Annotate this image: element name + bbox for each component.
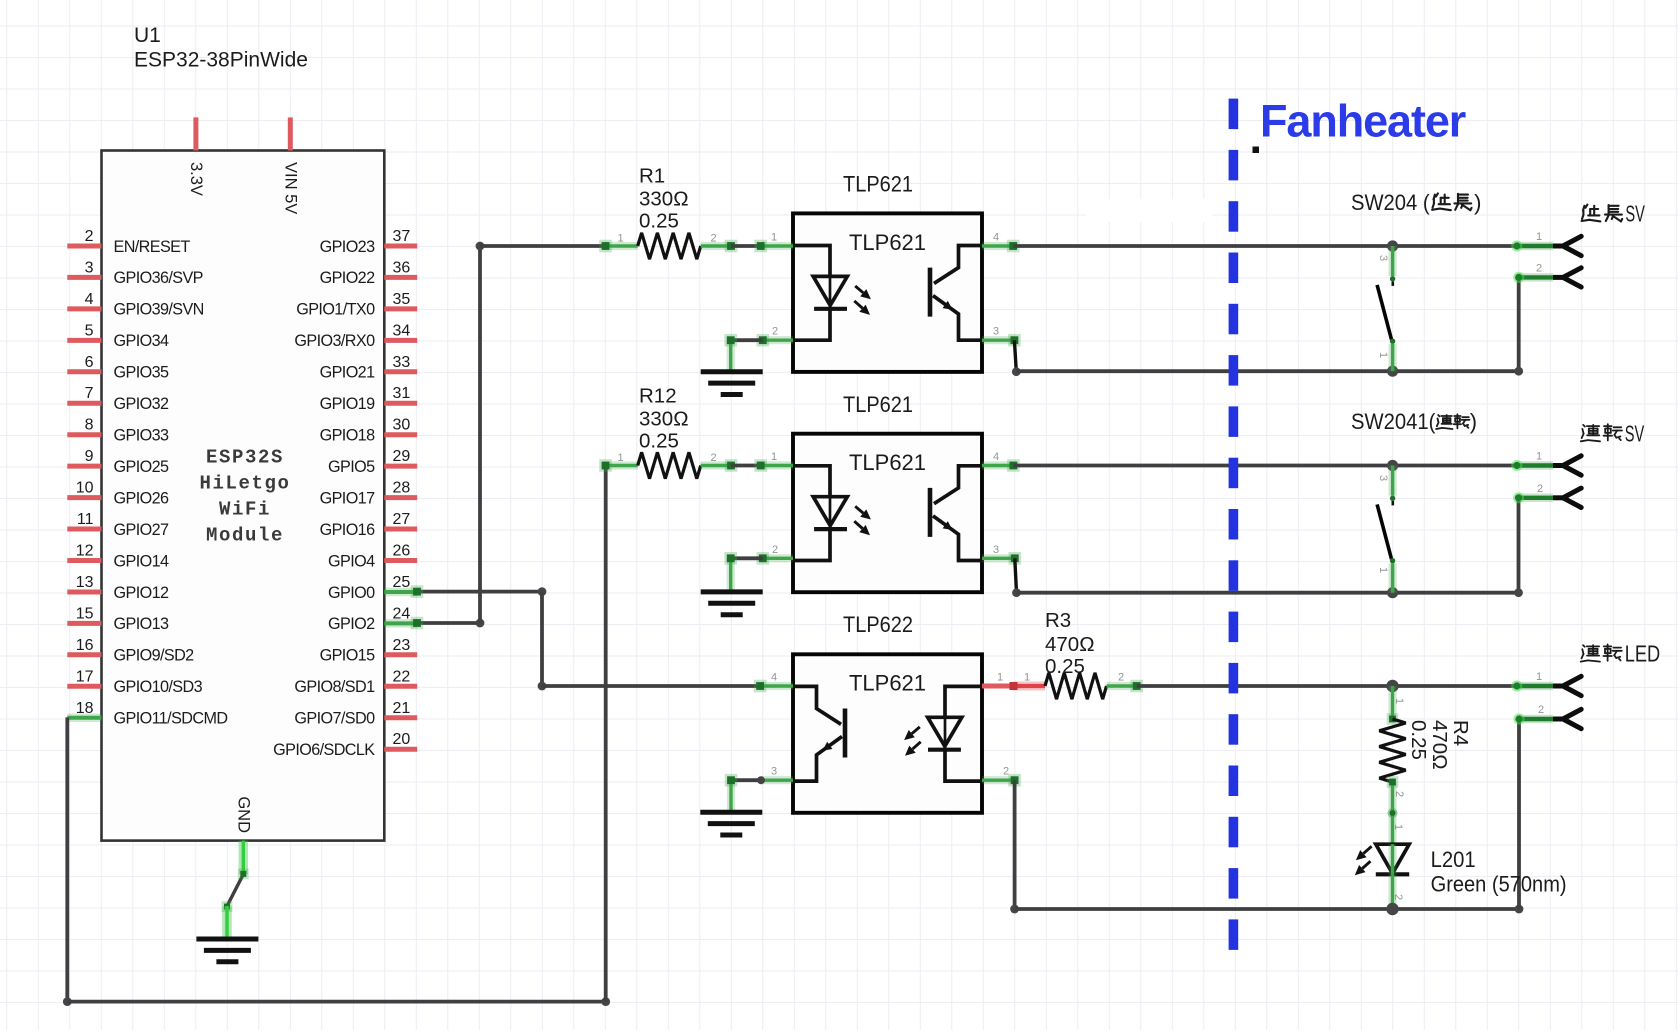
U1 right pin 26 GPIO4 <box>384 558 417 563</box>
IC U1 ESP32-38PinWide body <box>102 151 385 841</box>
svg-text:3: 3 <box>771 766 777 778</box>
U3 pin 4 <box>982 461 1013 469</box>
ground wire U4 pin3 <box>727 780 735 812</box>
svg-text:15: 15 <box>76 605 94 622</box>
svg-text:3: 3 <box>85 259 94 276</box>
svg-text:TLP621: TLP621 <box>849 450 926 475</box>
U1 right pin 28 GPIO17 <box>384 495 417 500</box>
U4 LED and transistor mirrored <box>793 686 982 781</box>
connector J2 pin 2 <box>1519 494 1554 503</box>
svg-text:3: 3 <box>993 326 999 338</box>
U1 left pin 4 GPIO39/SVN <box>67 306 101 311</box>
connector J3 pin 1 <box>1517 682 1553 691</box>
net rail LED bottom <box>1010 905 1019 914</box>
switch SW2041 <box>1387 460 1398 471</box>
svg-text:8: 8 <box>85 417 94 434</box>
svg-text:GPIO8/SD1: GPIO8/SD1 <box>294 678 375 696</box>
svg-text:34: 34 <box>393 322 411 339</box>
net label UNTEN SV <box>1581 425 1600 441</box>
svg-text:): ) <box>1470 409 1477 434</box>
svg-text:470Ω: 470Ω <box>1428 720 1451 770</box>
svg-text:29: 29 <box>393 448 411 465</box>
svg-text:3: 3 <box>1377 475 1389 481</box>
wire GPIO0 pin25 to opto U3 pin4 <box>417 590 542 594</box>
svg-text:U1: U1 <box>134 24 161 47</box>
svg-text:GPIO23: GPIO23 <box>320 238 375 256</box>
svg-text:GPIO39/SVN: GPIO39/SVN <box>114 301 204 319</box>
svg-text:2: 2 <box>1393 791 1405 797</box>
U1 left pin 18 GPIO11/SDCMD <box>67 714 101 723</box>
U1 right pin 33 GPIO21 <box>384 369 417 374</box>
resistor R12 330ohm <box>606 461 638 469</box>
svg-text:17: 17 <box>76 668 94 685</box>
U1 right pin 35 GPIO1/TX0 <box>384 306 417 311</box>
resistor R4 470ohm <box>1388 686 1396 719</box>
U2 pin 3 <box>982 336 1014 344</box>
svg-text:470Ω: 470Ω <box>1045 633 1095 656</box>
svg-text:12: 12 <box>76 543 94 560</box>
U1 right pin 29 GPIO5 <box>384 464 417 469</box>
net label UNTEN LED <box>1581 645 1600 661</box>
svg-text:EN/RESET: EN/RESET <box>114 238 191 256</box>
pin VIN 5V <box>288 117 293 150</box>
opto-isolator U2 TLP621 body <box>793 213 982 372</box>
svg-text:GPIO13: GPIO13 <box>114 615 169 633</box>
U2 LED and transistor <box>793 246 830 277</box>
connector J3 pin 2 <box>1519 715 1553 724</box>
connector J2 pin 1 <box>1517 461 1553 470</box>
opto-isolator U4 TLP622 body <box>793 654 982 813</box>
svg-text:2: 2 <box>1537 483 1543 495</box>
U1 right pin 22 GPIO8/SD1 <box>384 684 417 689</box>
svg-text:6: 6 <box>85 354 94 371</box>
U1 left pin 7 GPIO32 <box>67 401 101 406</box>
svg-text:1: 1 <box>1393 698 1405 704</box>
LED bottom junction <box>1386 903 1398 915</box>
U1 left pin 9 GPIO25 <box>67 464 101 469</box>
svg-text:GPIO15: GPIO15 <box>320 647 375 665</box>
ground symbol under U4 <box>700 810 762 815</box>
U1 right pin 24 GPIO2 <box>384 619 417 628</box>
svg-text:23: 23 <box>393 637 411 654</box>
svg-text:2: 2 <box>710 232 716 244</box>
svg-text:WiFi: WiFi <box>219 499 271 521</box>
U1 right pin 31 GPIO19 <box>384 401 417 406</box>
svg-text:GPIO4: GPIO4 <box>328 552 375 570</box>
U1 left pin 16 GPIO9/SD2 <box>67 652 101 657</box>
conn J3 pin2 drop wire <box>1517 719 1521 909</box>
svg-text:18: 18 <box>76 700 94 717</box>
svg-text:36: 36 <box>393 259 411 276</box>
svg-text:TLP621: TLP621 <box>843 172 913 197</box>
svg-text:GPIO35: GPIO35 <box>114 364 169 382</box>
svg-text:22: 22 <box>393 668 411 685</box>
U3 pin 2 <box>763 554 793 562</box>
U1 left pin 13 GPIO12 <box>67 590 101 595</box>
svg-text:1: 1 <box>1536 451 1542 463</box>
U2 pin 1 <box>761 242 793 250</box>
svg-text:GPIO6/SDCLK: GPIO6/SDCLK <box>273 741 375 759</box>
wire up to R12 <box>604 466 608 1002</box>
net label ENCHO SV <box>1582 205 1601 222</box>
svg-text:TLP621: TLP621 <box>849 230 926 255</box>
conn J2 pin2 drop wire <box>1517 498 1521 593</box>
LED L201 <box>1376 844 1409 873</box>
U3 LED and transistor <box>793 466 830 497</box>
svg-text:35: 35 <box>393 291 411 308</box>
svg-text:GPIO1/TX0: GPIO1/TX0 <box>296 301 375 319</box>
svg-text:GPIO3/RX0: GPIO3/RX0 <box>294 332 375 350</box>
net rail SW2041 top <box>1013 464 1516 468</box>
svg-text:GPIO21: GPIO21 <box>320 364 375 382</box>
ground symbol under U2 <box>701 369 763 374</box>
svg-text:4: 4 <box>993 232 999 244</box>
wire GPIO11/SDCMD pin18 down <box>65 717 69 1001</box>
opto-isolator U3 TLP621 body <box>793 434 982 593</box>
U1 left pin 5 GPIO34 <box>67 338 101 343</box>
svg-text:): ) <box>1474 190 1481 215</box>
net rail SW204 top <box>1013 244 1517 248</box>
svg-text:33: 33 <box>393 354 411 371</box>
svg-text:0.25: 0.25 <box>1045 655 1085 678</box>
svg-text:GPIO10/SD3: GPIO10/SD3 <box>114 678 203 696</box>
svg-text:Green (570nm): Green (570nm) <box>1431 872 1567 897</box>
svg-text:1: 1 <box>1392 824 1404 830</box>
U3 pin 3 <box>982 554 1015 562</box>
U1 left pin 15 GPIO13 <box>67 621 101 626</box>
svg-text:GND: GND <box>234 796 252 833</box>
pin 3.3V <box>193 117 198 150</box>
connector J1 pin 1 <box>1517 242 1553 251</box>
svg-text:LED: LED <box>1625 641 1661 667</box>
svg-text:SV: SV <box>1625 420 1645 446</box>
net rail SW2041 bottom <box>1015 558 1017 592</box>
svg-text:GPIO0: GPIO0 <box>328 584 375 602</box>
svg-text:330Ω: 330Ω <box>639 407 689 430</box>
svg-text:GPIO36/SVP: GPIO36/SVP <box>114 269 203 287</box>
svg-text:GPIO32: GPIO32 <box>114 395 169 413</box>
svg-text:11: 11 <box>77 511 94 528</box>
svg-text:3.3V: 3.3V <box>187 162 205 196</box>
ground wire U3 pin2 <box>731 556 763 560</box>
svg-text:25: 25 <box>393 574 411 591</box>
svg-text:GPIO25: GPIO25 <box>114 458 169 476</box>
svg-text:TLP622: TLP622 <box>843 612 913 637</box>
switch SW204 <box>1387 240 1398 251</box>
svg-text:SW204 (: SW204 ( <box>1351 190 1430 215</box>
svg-text:330Ω: 330Ω <box>639 188 689 211</box>
U4 pin 3 <box>731 778 761 782</box>
svg-text:Module: Module <box>206 525 284 547</box>
svg-text:GPIO22: GPIO22 <box>320 269 375 287</box>
svg-text:1: 1 <box>1536 231 1542 243</box>
U1 right pin 30 GPIO18 <box>384 432 417 437</box>
U1 right pin 37 GPIO23 <box>384 244 417 249</box>
svg-text:31: 31 <box>393 385 411 402</box>
U4 pin 2 <box>982 776 1015 784</box>
U4 pin 4 <box>760 682 793 690</box>
U1 left pin 12 GPIO14 <box>67 558 101 563</box>
U2 pin 4 <box>982 242 1013 250</box>
svg-text:SV: SV <box>1625 200 1645 226</box>
ground symbol under U3 <box>701 589 763 594</box>
svg-text:20: 20 <box>393 731 411 748</box>
svg-text:GPIO16: GPIO16 <box>320 521 375 539</box>
svg-text:1: 1 <box>617 452 623 464</box>
U1 right pin 36 GPIO22 <box>384 275 417 280</box>
U1 left pin 10 GPIO26 <box>67 495 101 500</box>
svg-text:GPIO9/SD2: GPIO9/SD2 <box>114 647 195 665</box>
svg-text:GPIO5: GPIO5 <box>328 458 375 476</box>
resistor R1 330ohm <box>606 242 638 250</box>
svg-text:2: 2 <box>85 228 94 245</box>
white patch <box>1086 199 1212 222</box>
svg-text:1: 1 <box>1536 671 1542 683</box>
svg-text:GPIO26: GPIO26 <box>114 489 169 507</box>
svg-text:0.25: 0.25 <box>1407 720 1430 760</box>
U1 left pin 17 GPIO10/SD3 <box>67 684 101 689</box>
wire jog GND <box>227 874 243 906</box>
U3 pin 1 <box>761 461 793 469</box>
svg-text:GPIO17: GPIO17 <box>320 489 375 507</box>
U1 left pin 3 GPIO36/SVP <box>67 275 101 280</box>
svg-text:3: 3 <box>993 544 999 556</box>
svg-text:9: 9 <box>85 448 94 465</box>
svg-text:1: 1 <box>617 232 623 244</box>
svg-text:13: 13 <box>76 574 94 591</box>
svg-text:0.25: 0.25 <box>639 210 679 233</box>
U1 left pin 11 GPIO27 <box>67 527 101 532</box>
svg-text:R4: R4 <box>1449 720 1472 746</box>
connector J1 pin 2 <box>1519 273 1553 282</box>
svg-text:28: 28 <box>393 480 411 497</box>
svg-text:GPIO7/SD0: GPIO7/SD0 <box>294 710 375 728</box>
svg-text:30: 30 <box>393 417 411 434</box>
net rail SW204 bottom <box>1014 340 1016 372</box>
svg-text:4: 4 <box>85 291 94 308</box>
svg-text:1: 1 <box>771 451 777 463</box>
svg-text:1: 1 <box>1024 672 1030 684</box>
svg-text:GPIO2: GPIO2 <box>328 615 375 633</box>
svg-text:GPIO11/SDCMD: GPIO11/SDCMD <box>114 710 228 728</box>
svg-text:4: 4 <box>771 672 777 684</box>
svg-text:HiLetgo: HiLetgo <box>199 473 290 495</box>
svg-text:SW2041(: SW2041( <box>1351 409 1436 434</box>
bottom wire <box>63 997 72 1006</box>
svg-text:3: 3 <box>1377 255 1389 261</box>
svg-text:2: 2 <box>1536 263 1542 275</box>
svg-text:L201: L201 <box>1431 847 1476 872</box>
svg-text:TLP621: TLP621 <box>849 671 926 696</box>
svg-text:5: 5 <box>85 322 94 339</box>
svg-text:TLP621: TLP621 <box>843 392 913 417</box>
svg-text:21: 21 <box>393 700 411 717</box>
ground symbol under U1 <box>196 937 258 942</box>
wire GPIO2 pin24 up to R1 <box>417 621 480 625</box>
svg-text:2: 2 <box>772 544 778 556</box>
wire U4 pin2 down <box>1013 780 1017 909</box>
svg-text:R12: R12 <box>639 384 677 407</box>
svg-text:ESP32-38PinWide: ESP32-38PinWide <box>134 49 308 72</box>
R4 junction <box>1386 680 1398 692</box>
svg-text:0.25: 0.25 <box>639 429 679 452</box>
small black mark <box>1253 147 1260 154</box>
svg-text:10: 10 <box>76 480 94 497</box>
svg-text:2: 2 <box>1538 704 1544 716</box>
svg-text:24: 24 <box>393 605 411 622</box>
ground wire U2 pin2 <box>731 338 763 342</box>
svg-text:1: 1 <box>1377 567 1389 573</box>
svg-text:1: 1 <box>771 232 777 244</box>
conn J1 pin2 drop wire <box>1517 277 1521 371</box>
U1 left pin 6 GPIO35 <box>67 369 101 374</box>
svg-text:GPIO14: GPIO14 <box>114 552 169 570</box>
svg-text:27: 27 <box>393 511 411 528</box>
svg-text:R1: R1 <box>639 165 665 188</box>
svg-text:1: 1 <box>997 672 1003 684</box>
svg-text:26: 26 <box>393 543 411 560</box>
svg-text:2: 2 <box>1392 894 1404 900</box>
svg-text:GPIO18: GPIO18 <box>320 427 375 445</box>
svg-text:Fanheater: Fanheater <box>1260 95 1466 146</box>
svg-text:GPIO27: GPIO27 <box>114 521 169 539</box>
svg-text:4: 4 <box>993 451 999 463</box>
U1 right pin 21 GPIO7/SD0 <box>384 715 417 720</box>
U2 pin 2 <box>763 336 793 344</box>
svg-text:2: 2 <box>1118 672 1124 684</box>
svg-text:GPIO12: GPIO12 <box>114 584 169 602</box>
resistor R3 470ohm <box>1045 673 1107 699</box>
svg-text:7: 7 <box>85 385 94 402</box>
svg-text:GPIO33: GPIO33 <box>114 427 169 445</box>
svg-text:GPIO34: GPIO34 <box>114 332 169 350</box>
net rail LED top <box>1137 684 1517 688</box>
U1 left pin 2 EN/RESET <box>67 244 101 249</box>
svg-text:16: 16 <box>76 637 94 654</box>
U1 left pin 8 GPIO33 <box>67 432 101 437</box>
U4 pin 1 red wire <box>1014 682 1046 691</box>
U1 right pin 34 GPIO3/RX0 <box>384 338 417 343</box>
U1 right pin 23 GPIO15 <box>384 652 417 657</box>
svg-text:1: 1 <box>1377 352 1389 358</box>
svg-text:R3: R3 <box>1045 609 1071 632</box>
U1 right pin 20 GPIO6/SDCLK <box>384 747 417 752</box>
svg-text:GPIO19: GPIO19 <box>320 395 375 413</box>
U1 right pin 27 GPIO16 <box>384 527 417 532</box>
U1 right pin 25 GPIO0 <box>384 588 417 597</box>
svg-text:2: 2 <box>772 326 778 338</box>
svg-text:ESP32S: ESP32S <box>206 447 284 469</box>
svg-text:37: 37 <box>393 228 411 245</box>
Fanheater boundary dashed line <box>1229 99 1239 950</box>
svg-text:2: 2 <box>1003 766 1009 778</box>
svg-text:VIN 5V: VIN 5V <box>281 162 299 214</box>
svg-text:2: 2 <box>710 452 716 464</box>
